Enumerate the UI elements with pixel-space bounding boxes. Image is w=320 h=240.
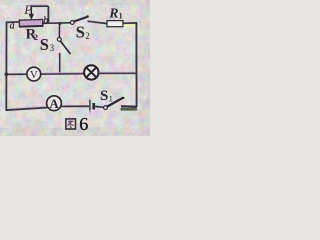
- svg-text:2: 2: [85, 31, 90, 41]
- battery short plate: [92, 103, 95, 109]
- wire: down leg to b-node: [47, 6, 49, 23]
- svg-text:R: R: [108, 6, 118, 21]
- wire: S1 fixed contact to corner: [121, 105, 137, 108]
- switch S3 blade: [60, 41, 70, 54]
- wire: S3 upper vertical: [58, 24, 60, 38]
- switch S2 blade: [74, 17, 87, 22]
- caption glyph 图: [66, 119, 76, 129]
- svg-text:a: a: [10, 21, 15, 32]
- ammeter A: [47, 96, 62, 111]
- wire: R1 to top-right corner: [123, 22, 137, 25]
- S1 shadow band: [120, 108, 137, 111]
- wire: b to S2: [43, 22, 71, 25]
- switch S3 pivot: [57, 38, 61, 42]
- resistor R1: [107, 21, 123, 27]
- wire: ammeter to battery: [61, 105, 89, 107]
- svg-text:b: b: [43, 16, 48, 27]
- svg-text:2: 2: [34, 32, 38, 42]
- wire: battery to S1: [95, 105, 104, 108]
- node: junction dot S3 tap: [58, 22, 61, 25]
- paper background: [0, 0, 150, 136]
- wire: top-left to rheostat terminal a: [6, 21, 20, 24]
- green tint near corner: [124, 24, 138, 27]
- svg-text:S: S: [76, 23, 85, 42]
- node: middle wire to left edge: [5, 73, 9, 77]
- svg-text:1: 1: [119, 12, 123, 21]
- lamp: [84, 65, 98, 79]
- svg-text:V: V: [30, 69, 38, 81]
- voltmeter V: [27, 67, 41, 81]
- svg-text:A: A: [49, 96, 59, 111]
- wire: lamp to right edge: [99, 72, 137, 74]
- scan grain: [0, 0, 1, 1]
- rheostat slider arrow P: [30, 6, 32, 15]
- wire: bottom-left to ammeter: [5, 108, 47, 111]
- switch S1 pivot: [104, 106, 108, 110]
- switch S1 blade: [107, 98, 123, 107]
- svg-text:6: 6: [79, 114, 88, 134]
- wire: S2 to R1: [87, 21, 107, 23]
- wire: slider top link: [31, 5, 49, 7]
- rheostat R2 box: [19, 19, 43, 27]
- battery long plate: [89, 100, 91, 112]
- wire: left vertical edge: [5, 23, 7, 111]
- switch S2 pivot: [70, 21, 74, 25]
- wire: voltmeter to lamp: [41, 73, 85, 76]
- svg-text:S: S: [100, 88, 108, 104]
- svg-text:S: S: [40, 35, 49, 54]
- wire: S3 lower vertical: [59, 53, 61, 74]
- svg-text:1: 1: [109, 93, 113, 103]
- svg-text:P: P: [23, 2, 32, 17]
- wire: right vertical edge: [135, 23, 137, 107]
- wire: left edge to voltmeter: [6, 73, 27, 75]
- svg-text:3: 3: [50, 43, 55, 53]
